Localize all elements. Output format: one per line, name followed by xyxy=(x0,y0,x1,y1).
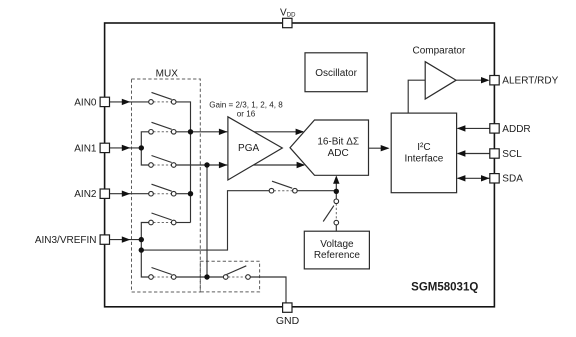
arrow into ADC bottom-left slant xyxy=(297,162,306,168)
comparator input wire from I2C xyxy=(408,80,425,113)
op-amp PGA xyxy=(228,117,282,180)
pin ALERT/RDY xyxy=(490,76,559,87)
PGA output wires into ADC xyxy=(253,132,304,165)
arrow into ADC top-left slant xyxy=(296,129,305,135)
arrow into PGA bottom xyxy=(219,162,228,168)
pin AIN3/VREFIN xyxy=(35,235,110,246)
wire SDA pin to I2C (bidirectional) xyxy=(458,177,490,179)
chip boundary xyxy=(105,23,495,307)
svg-text:SDA: SDA xyxy=(502,174,523,185)
pin AIN2 xyxy=(74,189,109,200)
bus B vertical xyxy=(206,165,208,277)
switch S2 xyxy=(149,122,176,134)
svg-text:Reference: Reference xyxy=(314,250,361,261)
pin SDA xyxy=(490,174,523,185)
pin VDD xyxy=(280,7,296,27)
pin AIN1 xyxy=(74,143,109,154)
switch S3 xyxy=(149,156,176,168)
switch S5 xyxy=(149,213,176,225)
svg-text:or 16: or 16 xyxy=(237,110,256,119)
svg-text:Gain = 2/3, 1, 2, 4, 8: Gain = 2/3, 1, 2, 4, 8 xyxy=(209,101,283,110)
svg-text:Interface: Interface xyxy=(404,153,443,164)
node dot AIN1 xyxy=(139,145,144,150)
switch S8 (external ref select) xyxy=(269,181,297,193)
switch S1 (AIN0) xyxy=(149,92,176,104)
pin SCL xyxy=(490,149,522,160)
wire AIN0 to switch S1 xyxy=(110,101,149,103)
I2C interface box xyxy=(391,113,456,193)
wire ADDR pin to I2C xyxy=(458,127,490,129)
wire S8 to ref node xyxy=(297,190,336,192)
arrow into PGA top xyxy=(219,129,228,135)
wire AIN3/VREFIN to node xyxy=(110,239,142,241)
wire S2 output to PGA plus input xyxy=(176,131,227,133)
arrow ADDR into I2C xyxy=(457,125,466,131)
wire S6 to S7 row and to GND xyxy=(176,277,286,303)
switch S6 (bottom row) xyxy=(149,268,176,280)
svg-text:ADC: ADC xyxy=(328,148,349,159)
pin GND xyxy=(276,303,300,327)
svg-text:Oscillator: Oscillator xyxy=(315,68,357,79)
svg-text:AIN3/VREFIN: AIN3/VREFIN xyxy=(35,235,97,246)
ADC block (pentagon) xyxy=(290,120,369,175)
wire ref branch from AIN3 bus to ref switch row xyxy=(141,191,269,250)
node dot AIN3 xyxy=(139,237,144,242)
node dot bus A / S2 line xyxy=(188,129,193,134)
svg-text:SGM58031Q: SGM58031Q xyxy=(411,282,478,294)
svg-text:I²C: I²C xyxy=(417,142,430,153)
switch S9 (internal ref, vertical) xyxy=(323,191,338,231)
bus A vertical xyxy=(190,132,192,223)
gain label xyxy=(209,101,283,119)
svg-text:16-Bit ΔΣ: 16-Bit ΔΣ xyxy=(317,136,359,147)
svg-text:AIN2: AIN2 xyxy=(74,189,97,200)
svg-text:MUX: MUX xyxy=(156,68,179,79)
node dot bus B / bottom row xyxy=(204,274,209,279)
node dot ref branch xyxy=(139,247,144,252)
arrow into MUX on AIN2 xyxy=(122,191,131,197)
arrow into ALERT/RDY pin xyxy=(481,77,490,83)
pin AIN0 xyxy=(74,97,109,108)
arrow SCL into I2C xyxy=(457,150,466,156)
svg-text:PGA: PGA xyxy=(238,143,259,154)
node dot ADC ref input xyxy=(334,189,339,194)
switch S4 (AIN2) xyxy=(149,184,176,196)
wire AIN1 riser bus xyxy=(141,132,149,165)
svg-text:Comparator: Comparator xyxy=(412,45,465,56)
arrow SDA into I2C xyxy=(457,175,466,181)
wire comparator to ALERT/RDY pin xyxy=(456,79,488,81)
pin ADDR xyxy=(490,124,531,135)
comparator U3 xyxy=(412,45,465,99)
ref node arrow into ADC bottom xyxy=(333,175,339,191)
wire SCL pin to I2C xyxy=(458,153,490,155)
switch S7 (ref-mux box) xyxy=(223,266,250,280)
arrow into MUX on AIN3 xyxy=(122,236,131,242)
arrow into MUX on AIN0 xyxy=(122,99,131,105)
svg-text:GND: GND xyxy=(276,315,300,327)
svg-text:ADDR: ADDR xyxy=(502,124,530,135)
arrow into I2C interface xyxy=(381,145,390,151)
arrow SDA into pin xyxy=(481,175,490,181)
wire S5 output to bus A xyxy=(176,222,191,224)
node dot bus A / S4 line xyxy=(188,191,193,196)
svg-text:ALERT/RDY: ALERT/RDY xyxy=(502,76,558,87)
svg-text:Voltage: Voltage xyxy=(320,239,354,250)
ref-mux dashed box xyxy=(200,261,259,292)
svg-text:SCL: SCL xyxy=(502,149,522,160)
wire AIN3 riser bus xyxy=(141,223,149,278)
node dot bus B / S3 line xyxy=(204,162,209,167)
wire S1 output to bus A xyxy=(176,102,191,132)
wire AIN2 to switch S4 xyxy=(110,193,149,195)
wire S4 output to bus A xyxy=(176,193,191,195)
wire ADC output to I2C interface xyxy=(369,147,389,149)
wire S3 output to PGA minus input xyxy=(176,164,227,166)
arrow into MUX on AIN1 xyxy=(122,145,131,151)
wire AIN1 to node xyxy=(110,147,142,149)
oscillator box U2 xyxy=(305,53,367,92)
MUX dashed box xyxy=(132,79,201,292)
svg-text:AIN0: AIN0 xyxy=(74,97,97,108)
svg-text:AIN1: AIN1 xyxy=(74,143,97,154)
voltage reference box xyxy=(304,231,369,269)
svg-text:DD: DD xyxy=(287,12,296,18)
